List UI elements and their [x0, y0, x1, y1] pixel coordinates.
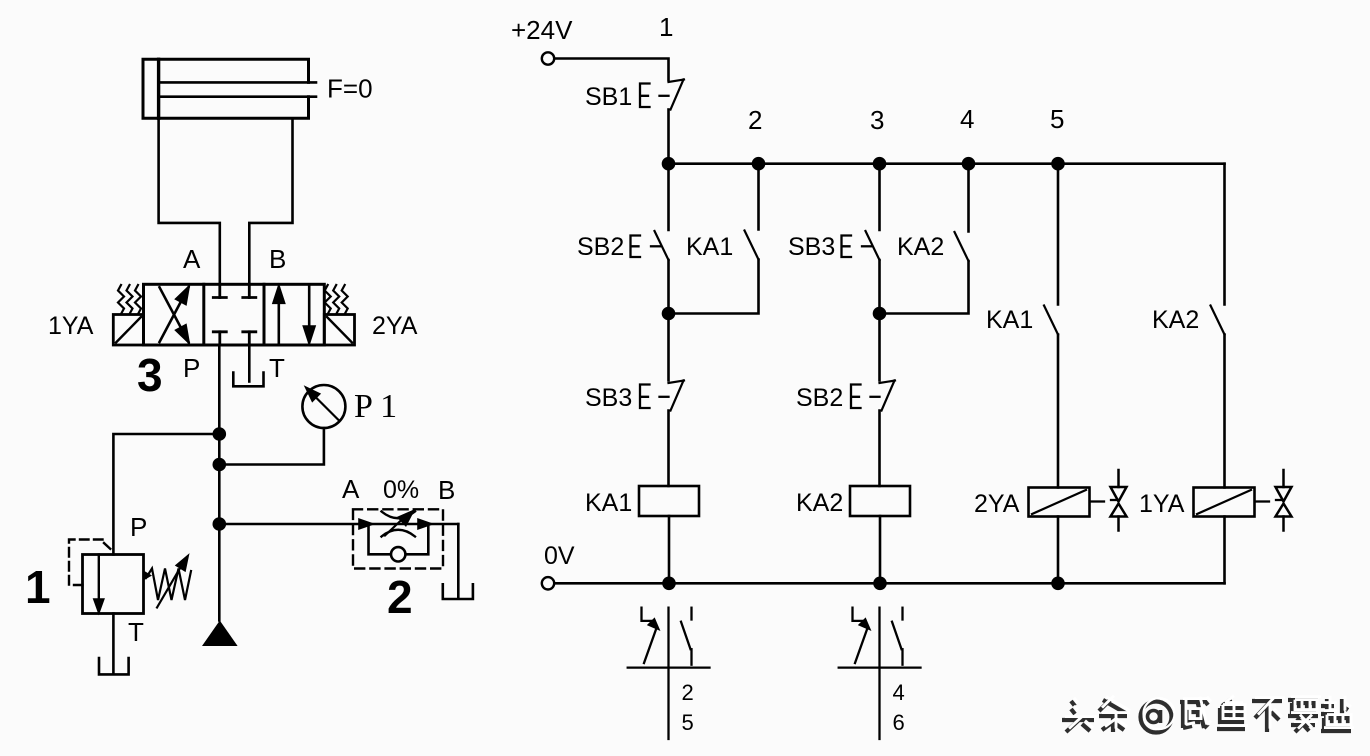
valve 3 body: three position boxes	[144, 284, 325, 345]
tank at throttle outlet	[443, 584, 473, 599]
wire coil KA1 to 0V	[668, 516, 671, 583]
svg-text:2YA: 2YA	[974, 490, 1020, 518]
connector plug at 1YA	[1257, 500, 1270, 502]
T port pipe	[248, 345, 251, 382]
valve right position parallel arrows	[277, 288, 280, 343]
pressure gauge P1	[302, 385, 345, 428]
coil 1YA (solenoid)	[1194, 488, 1255, 517]
cylinder body	[143, 59, 309, 118]
pushbutton SB1 (NC)	[669, 80, 685, 83]
valve center position blocked ports	[213, 284, 256, 345]
cylinder piston	[157, 59, 160, 118]
check valve ball	[391, 547, 405, 561]
contact KA1 (output, NO)	[1044, 306, 1058, 335]
node dot col5	[1051, 157, 1065, 171]
node dot col1	[662, 157, 676, 171]
svg-text:SB2: SB2	[796, 384, 843, 412]
valve left position crossed arrows	[160, 287, 189, 342]
wire KA1 output contact to coil 2YA	[1057, 335, 1060, 488]
svg-text:1: 1	[659, 12, 673, 42]
svg-text:KA1: KA1	[686, 233, 733, 261]
wire P junction to throttle	[219, 523, 458, 526]
wire +24V feed	[555, 59, 669, 81]
svg-text:P 1: P 1	[354, 388, 397, 425]
svg-text:2: 2	[748, 105, 762, 135]
relief valve 1 body	[83, 555, 144, 614]
wire cylinder right port to valve B	[249, 118, 292, 284]
node P-throttle junction	[213, 517, 227, 531]
pushbutton SB2 (NO)	[655, 231, 669, 260]
svg-text:1YA: 1YA	[1139, 490, 1185, 518]
svg-text:4: 4	[893, 680, 905, 705]
svg-text:0%: 0%	[383, 476, 419, 504]
svg-text:6: 6	[893, 710, 905, 735]
pushbutton SB3 (NC interlock)	[669, 381, 685, 384]
contact reference table	[878, 608, 880, 739]
connector plug at 2YA	[1092, 500, 1105, 502]
svg-text:A: A	[183, 244, 201, 274]
svg-text:SB3: SB3	[585, 384, 632, 412]
svg-text:KA2: KA2	[897, 233, 944, 261]
bus rail (top)	[669, 162, 1225, 165]
node P-relief junction	[213, 427, 227, 441]
wire col1 bus to SB2	[667, 164, 670, 230]
wire col3 bus to SB3	[878, 164, 881, 230]
svg-text:2: 2	[387, 571, 413, 623]
svg-text:4: 4	[960, 104, 974, 134]
wire coil KA2 to 0V	[879, 516, 882, 583]
relief T pipe	[112, 614, 115, 674]
svg-text:1: 1	[25, 561, 51, 613]
contact KA2 (output, NO)	[1211, 306, 1225, 335]
wire junction to relief valve	[113, 434, 219, 555]
wire SB3 to junction	[878, 260, 881, 314]
wire bus corner to KA2 output contact	[1223, 164, 1226, 305]
wire cylinder left port to valve A	[159, 118, 220, 284]
node dot 0V col3	[873, 577, 887, 591]
+24V terminal	[542, 52, 554, 64]
throttle dashed enclosure	[353, 509, 443, 568]
tank under T	[233, 373, 263, 387]
wire coil 1YA to 0V	[1223, 517, 1226, 584]
throttle adjust arrow	[385, 518, 404, 536]
contact KA1 (NO, self-hold)	[745, 231, 759, 260]
node dot 0V col1	[662, 577, 676, 591]
svg-text:2YA: 2YA	[372, 312, 418, 340]
relief valve flow arrow	[98, 555, 100, 601]
throttle outlet pipe	[457, 524, 460, 598]
svg-text:KA2: KA2	[796, 489, 843, 517]
svg-text:+24V: +24V	[511, 15, 573, 45]
svg-text:B: B	[438, 475, 455, 505]
solenoid 1YA box	[113, 315, 143, 346]
svg-text:3: 3	[870, 105, 884, 135]
0V terminal	[542, 577, 554, 589]
wire col4 bus to KA2 contact	[967, 164, 970, 232]
wire junction to SB2 NC	[878, 314, 881, 381]
watermark 头条@咸鱼不要盐	[1062, 696, 1354, 733]
svg-text:F=0: F=0	[327, 74, 373, 104]
node dot col3 junction	[873, 307, 887, 321]
svg-text:5: 5	[682, 710, 694, 735]
svg-text:5: 5	[1050, 104, 1064, 134]
svg-text:B: B	[269, 244, 286, 274]
solenoid 2YA box	[324, 315, 354, 346]
wire SB3 NC to coil KA1	[667, 411, 670, 487]
node dot 0V col5	[1051, 577, 1065, 591]
pushbutton SB2 (NC interlock)	[880, 381, 896, 384]
flow arrowheads on line	[360, 520, 372, 528]
0V rail	[555, 582, 1225, 585]
check valve bypass loop	[369, 524, 429, 554]
relief valve adjust arrow	[157, 563, 183, 608]
node dot col3	[873, 157, 887, 171]
wire col5 bus to KA1 output contact	[1057, 164, 1060, 305]
svg-text:A: A	[342, 474, 360, 504]
svg-text:KA1: KA1	[585, 489, 632, 517]
svg-text:2: 2	[682, 680, 694, 705]
wire KA1 contact to junction	[669, 260, 759, 314]
throttle restriction arcs	[382, 512, 416, 519]
node dot col1 junction	[662, 307, 676, 321]
svg-text:0V: 0V	[544, 542, 575, 570]
node dot col4	[962, 157, 976, 171]
wire col2 bus to KA1 contact	[757, 164, 760, 230]
wire KA2 output contact to coil 1YA	[1223, 335, 1226, 488]
wire KA2 contact to junction	[880, 261, 969, 314]
wire junction to SB3 NC	[667, 314, 670, 381]
svg-text:KA1: KA1	[986, 306, 1033, 334]
svg-text:SB2: SB2	[577, 233, 624, 261]
relief valve pilot dashed line	[69, 540, 111, 586]
spring left	[118, 285, 141, 314]
coil KA2	[850, 486, 910, 516]
coil KA1	[639, 486, 699, 516]
contact KA2 (NO, self-hold)	[955, 232, 969, 261]
svg-text:T: T	[269, 353, 285, 383]
relief valve spring	[144, 571, 153, 581]
contact reference table	[667, 608, 669, 739]
node P-gauge junction	[213, 458, 227, 472]
svg-text:3: 3	[137, 349, 163, 401]
spring right	[325, 285, 348, 314]
wire SB2 to junction	[667, 260, 670, 314]
svg-text:KA2: KA2	[1152, 306, 1199, 334]
svg-text:1YA: 1YA	[48, 312, 94, 340]
P main line	[218, 345, 221, 621]
wire coil 2YA to 0V	[1057, 517, 1060, 584]
pushbutton SB3 (NO)	[866, 231, 880, 260]
wire gauge to P line	[219, 428, 324, 465]
wire SB1 to bus	[667, 110, 670, 164]
node dot col2	[752, 157, 766, 171]
tank under relief	[99, 658, 129, 674]
svg-text:SB3: SB3	[788, 233, 835, 261]
svg-text:P: P	[183, 353, 200, 383]
svg-text:SB1: SB1	[585, 83, 632, 111]
pump source triangle	[202, 621, 238, 647]
svg-text:T: T	[128, 617, 144, 647]
wire SB2 NC to coil KA2	[878, 411, 881, 487]
cylinder rod (double line)	[159, 81, 316, 84]
svg-text:P: P	[130, 512, 147, 542]
coil 2YA (solenoid)	[1029, 488, 1090, 517]
